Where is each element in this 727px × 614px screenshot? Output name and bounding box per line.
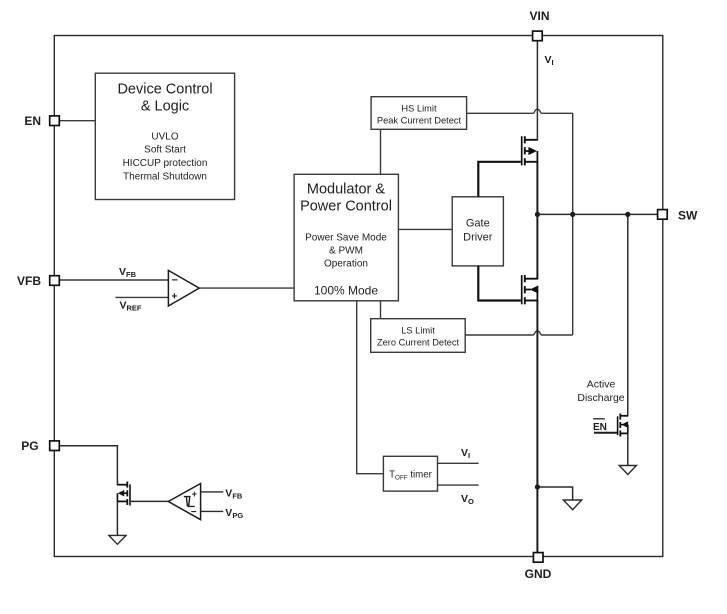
pad GND [533, 553, 543, 563]
wire: VIN rail down from pad [536, 41, 538, 141]
pad VIN [533, 31, 543, 41]
wire: PG pulldown source to ground [116, 501, 118, 536]
ground: PG pulldown ground symbol [109, 535, 126, 544]
svg-text:UVLO: UVLO [151, 132, 178, 143]
wire: VREF to error amp non-inverting input [115, 296, 168, 298]
comparator U2 power good (points left) [168, 484, 200, 520]
wire: active discharge source to ground [627, 433, 629, 465]
svg-text:Power Save Mode: Power Save Mode [305, 233, 387, 244]
wire: PG pad to pulldown FET drain [60, 446, 117, 486]
wire: gate driver to high-side gate [478, 162, 521, 197]
label Active Discharge [577, 379, 624, 405]
wire: Modulator to Gate Driver [398, 228, 452, 230]
svg-text:VIN: VIN [529, 9, 549, 23]
wire: EN pad to Device Control [60, 120, 95, 122]
nmos Q2 low-side switch [522, 275, 539, 304]
label EN-bar [593, 419, 607, 433]
op-amp U1 error comparator [168, 270, 199, 306]
svg-text:Operation: Operation [324, 259, 368, 270]
IC boundary box [54, 36, 663, 557]
svg-text:EN: EN [24, 114, 41, 128]
svg-text:Gate: Gate [466, 218, 490, 230]
wire: PG comparator output to pulldown gate [131, 500, 168, 502]
block: Gate Driver [452, 197, 503, 266]
wire: EN-bar to active discharge gate [594, 432, 617, 434]
nmos Q4 active discharge [618, 414, 629, 437]
wire: LS Limit sense with hop over switch rail [465, 331, 573, 335]
svg-text:Modulator &: Modulator & [307, 182, 386, 198]
pad PG [50, 441, 60, 451]
svg-text:& Logic: & Logic [141, 99, 189, 115]
svg-text:+: + [172, 292, 178, 303]
junction node at SW and sense line [570, 212, 575, 217]
wire: SW node to SW pad [537, 213, 657, 215]
svg-text:EN: EN [593, 422, 607, 433]
wire: PG comparator VPG input [201, 510, 224, 512]
wire: branch to internal ground right of GND [537, 487, 572, 500]
svg-text:LS Limit: LS Limit [401, 326, 435, 336]
svg-text:Active: Active [587, 379, 616, 391]
ground: internal ground symbol [563, 500, 581, 510]
pad VFB [50, 276, 60, 286]
wire: Modulator top to HS Limit bottom [380, 129, 382, 174]
svg-text:& PWM: & PWM [329, 246, 363, 257]
wire: low-side source to GND pad [536, 300, 538, 553]
svg-text:GND: GND [525, 567, 552, 581]
block: Device Control & Logic [95, 73, 234, 199]
svg-text:HICCUP protection: HICCUP protection [123, 158, 208, 169]
junction node at SW and main rail [535, 212, 540, 217]
ground: active discharge ground symbol [619, 466, 636, 475]
svg-text:100% Mode: 100% Mode [314, 284, 378, 298]
block: LS Limit Zero Current Detect [371, 319, 466, 353]
wire: error amp output to Modulator [199, 287, 294, 289]
pmos Q1 high-side switch [522, 136, 538, 165]
svg-text:Power Control: Power Control [300, 199, 392, 215]
svg-text:HS Limit: HS Limit [401, 104, 437, 114]
wire: TOFF timer VO output [438, 484, 479, 486]
svg-text:Zero Current Detect: Zero Current Detect [377, 338, 460, 348]
wire: Modulator bottom to LS Limit top [380, 301, 382, 319]
wire: gate driver to low-side gate [478, 266, 521, 301]
wire: switch node between FETs [536, 161, 538, 280]
block: Modulator & Power Control [294, 174, 398, 300]
junction node at GND branch [535, 484, 540, 489]
svg-text:Soft Start: Soft Start [144, 145, 186, 156]
svg-text:Driver: Driver [463, 232, 493, 244]
pad SW [658, 210, 668, 220]
svg-text:Peak Current Detect: Peak Current Detect [377, 116, 462, 126]
block: HS Limit Peak Current Detect [371, 97, 467, 130]
junction node at SW and discharge branch [625, 212, 630, 217]
wire: PG comparator VFB input [201, 491, 224, 493]
wire: TOFF timer VI output [438, 462, 479, 464]
svg-text:−: − [191, 507, 197, 518]
wire: SW to active discharge drain [627, 214, 629, 416]
block: TOFF timer [383, 456, 437, 491]
wire: HS Limit sense with hop over VIN rail [467, 109, 573, 113]
svg-text:Discharge: Discharge [577, 392, 624, 404]
wire: current limit sense vertical [572, 113, 574, 335]
svg-text:Thermal Shutdown: Thermal Shutdown [123, 172, 207, 183]
pad EN [50, 116, 60, 126]
svg-text:PG: PG [21, 439, 38, 453]
wire: Modulator bottom to TOFF timer [357, 301, 384, 474]
wire: VFB pad to error amp inverting input [60, 279, 168, 281]
svg-text:−: − [172, 275, 178, 287]
nmos Q3 PG pulldown (mirrored) [117, 482, 130, 506]
svg-text:SW: SW [678, 208, 698, 222]
svg-text:VFB: VFB [17, 274, 41, 288]
svg-text:Device Control: Device Control [117, 82, 212, 98]
svg-text:+: + [192, 489, 197, 499]
